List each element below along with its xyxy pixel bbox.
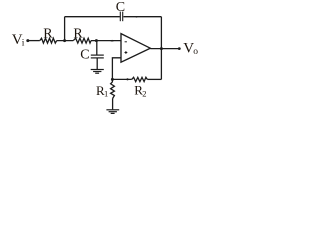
wire: op-amp output to Vo: [150, 48, 179, 50]
svg-text:i: i: [22, 39, 25, 49]
wire: top feedback left segment: [65, 16, 120, 18]
node: small dot on R2 lead: [126, 78, 128, 80]
wire: capacitor to ground: [96, 58, 98, 69]
node: small dash on inverting input wire: [111, 40, 114, 42]
wire: node B to op-amp inverting input: [91, 40, 121, 42]
resistor R (second, series): [73, 38, 91, 43]
wire: between resistors through node A: [57, 40, 74, 42]
op-amp U1: [121, 34, 150, 63]
wire: op-amp non-inverting input down to node D: [112, 58, 121, 80]
node A junction dot: [63, 39, 66, 42]
node: Vi terminal dot: [26, 39, 29, 42]
svg-text:R: R: [73, 26, 83, 41]
node D junction dot: [111, 78, 114, 81]
capacitor C (to ground): [91, 55, 104, 58]
node: output junction dot: [160, 47, 163, 50]
ground (under R1): [106, 110, 119, 114]
resistor R2: [132, 77, 148, 81]
wire: R2 to right feedback vertical: [147, 78, 161, 80]
wire: node B riser down to capacitor C: [96, 41, 98, 55]
node: Vo terminal dot: [178, 47, 181, 50]
svg-text:1: 1: [104, 89, 108, 99]
op-amp minus sign: [125, 41, 127, 43]
svg-text:o: o: [193, 47, 198, 57]
wire: top feedback right segment: [123, 16, 161, 18]
svg-text:C: C: [116, 0, 125, 15]
capacitor C (top feedback): [120, 12, 122, 22]
op-amp plus sign: [125, 51, 128, 54]
wire: node D to R2: [112, 78, 131, 80]
resistor R (first, input): [40, 38, 57, 43]
wire: Vi input lead: [29, 40, 40, 42]
node B junction dot: [95, 39, 98, 42]
wire: R1 to ground: [112, 99, 114, 110]
resistor R1 (vertical): [111, 79, 115, 98]
node: small dot on top feedback wire: [136, 16, 138, 18]
wire: riser from node A up to feedback capacitor: [64, 17, 66, 41]
wire: right feedback vertical: [160, 17, 162, 80]
ground (under capacitor C): [91, 70, 104, 74]
svg-text:R: R: [43, 26, 53, 41]
svg-text:2: 2: [142, 89, 146, 99]
svg-text:C: C: [80, 47, 89, 62]
